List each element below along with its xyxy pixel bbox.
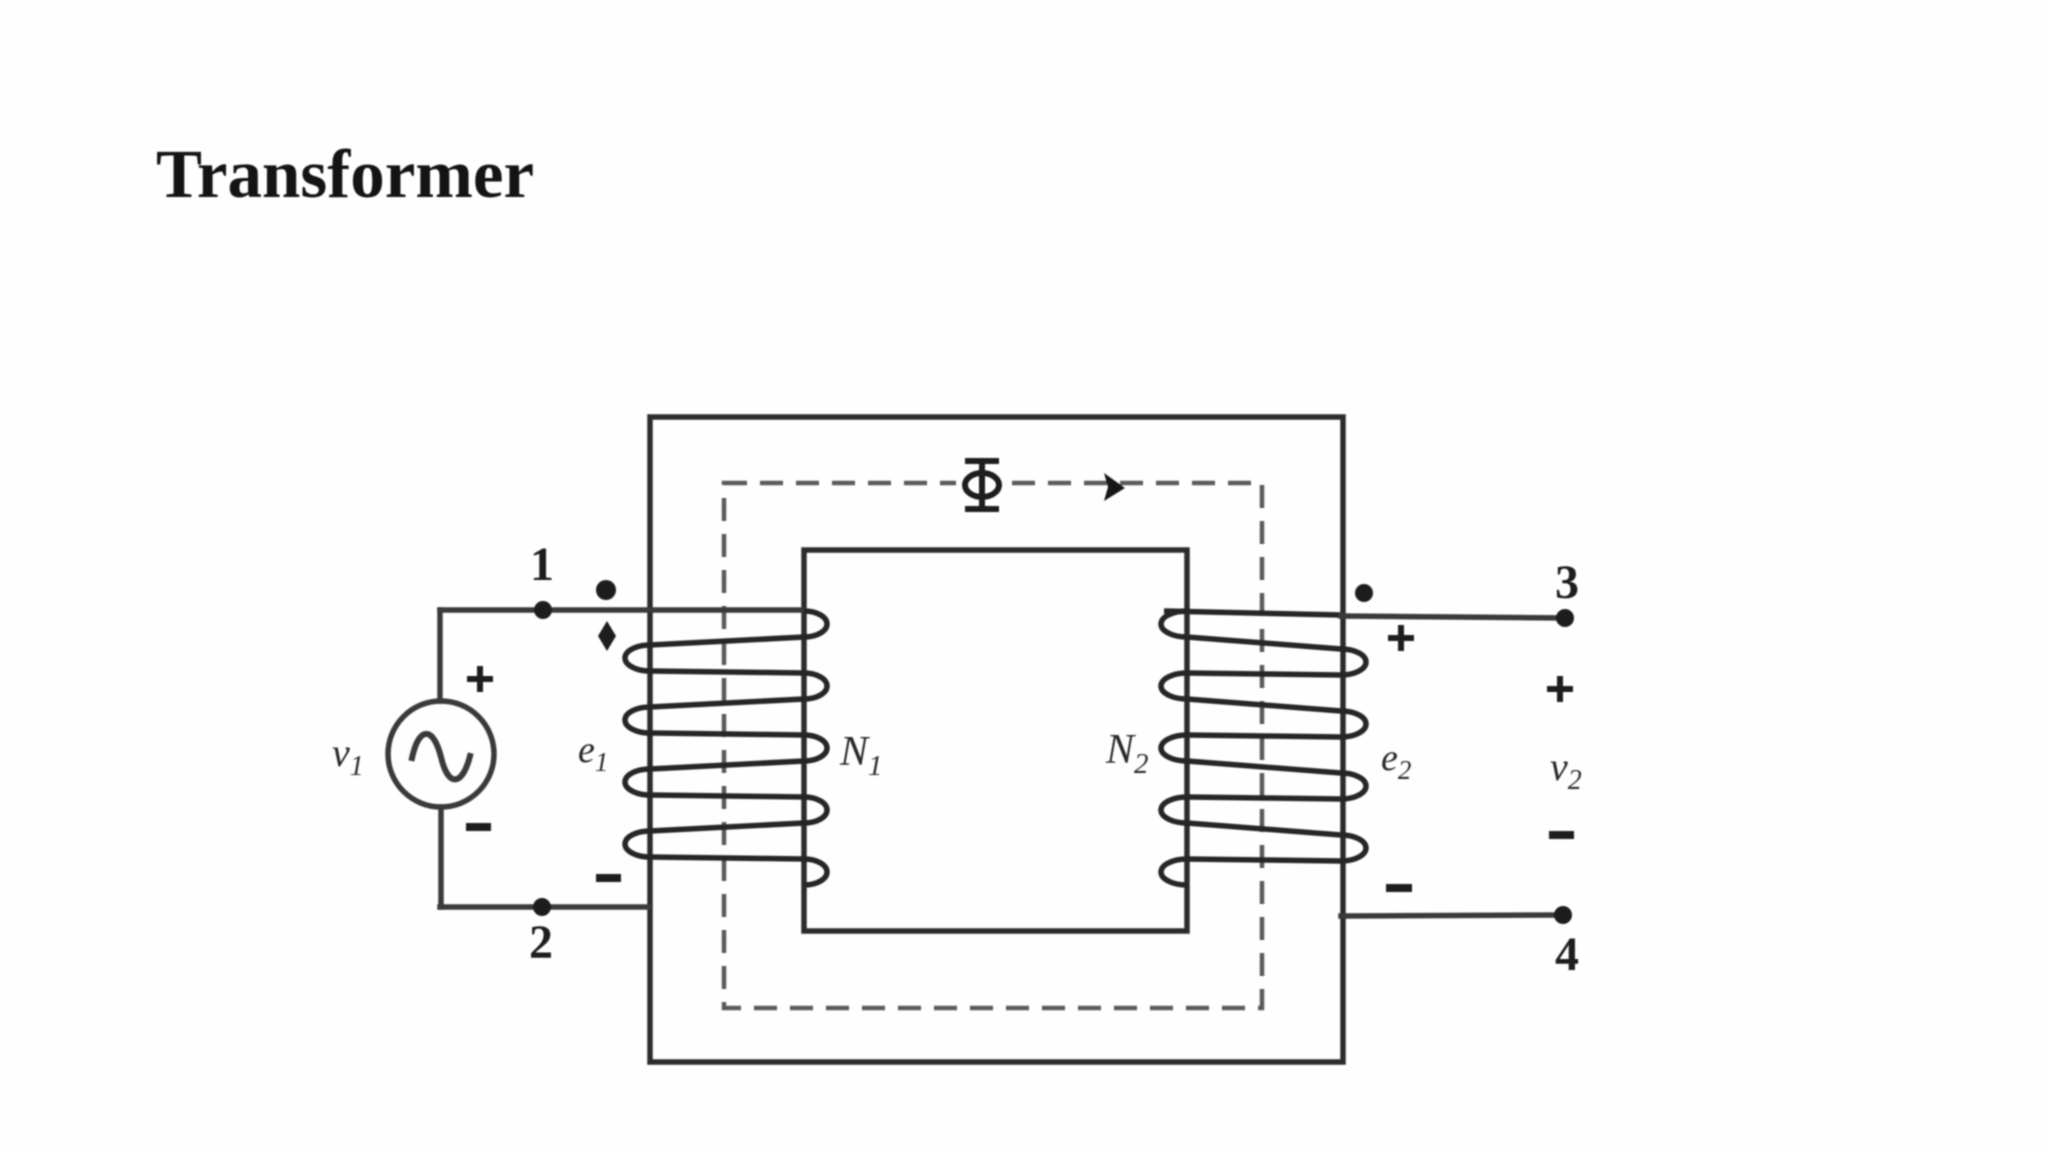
svg-text:1: 1: [530, 538, 554, 591]
svg-text:2: 2: [529, 916, 553, 969]
svg-text:3: 3: [1555, 556, 1579, 609]
svg-text:Transformer: Transformer: [156, 136, 534, 212]
svg-text:4: 4: [1555, 928, 1579, 981]
